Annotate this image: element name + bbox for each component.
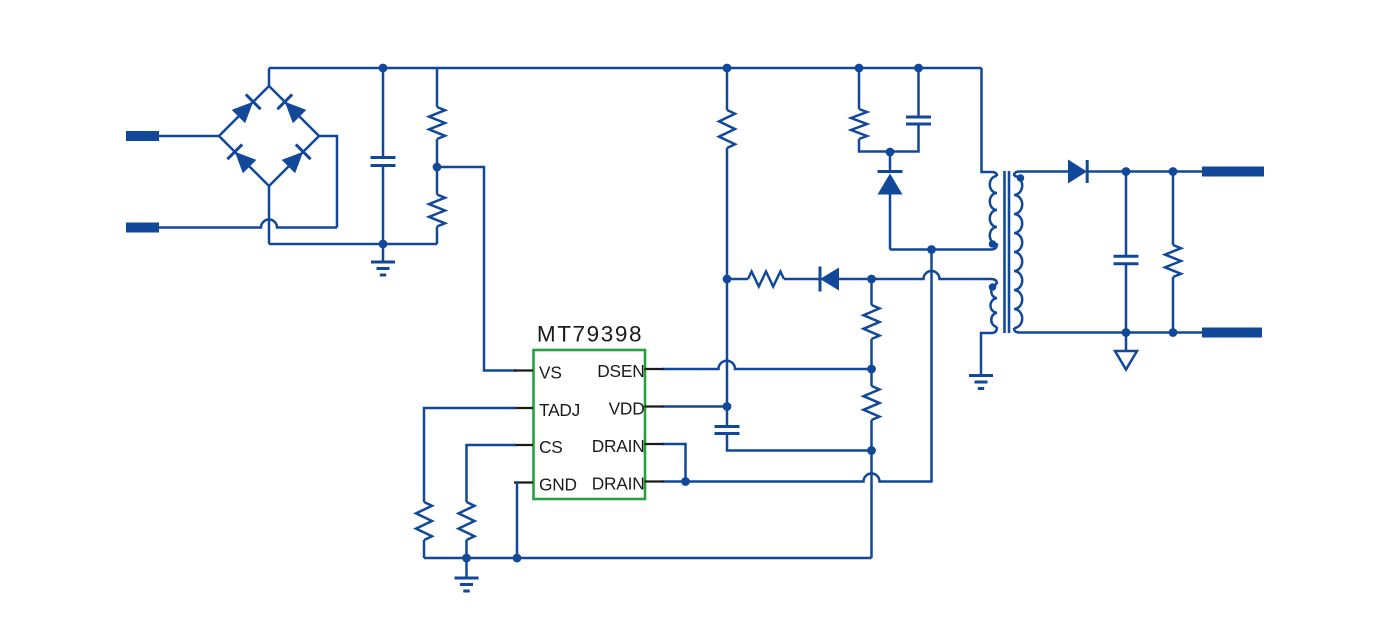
wire DRAIN pin 2 with hop over divider [662, 250, 932, 482]
resistor R1 (upper divider) [436, 68, 439, 107]
secondary phase dot [1017, 174, 1025, 182]
op IC U1 MT79398 box [534, 350, 646, 499]
wire bottom node [269, 243, 437, 246]
diode D5 (aux, pointing left) [820, 268, 839, 291]
output terminal + [1202, 167, 1264, 177]
diode D2 (bridge top-right) [285, 102, 307, 124]
diode D4 (bridge bottom-right) [282, 152, 304, 174]
wire GND pin [516, 483, 517, 559]
capacitor C4 (output) [1125, 172, 1128, 257]
node R3/aux line [723, 275, 732, 284]
aux phase dot [989, 283, 997, 291]
wire bridge right loop [319, 136, 337, 228]
wire aux bottom to ground [981, 327, 997, 374]
diode D3 (bridge bottom-left) [235, 152, 256, 174]
resistor R6 (sense divider lower) [864, 386, 880, 420]
ground (aux) [969, 374, 993, 377]
transformer T1 auxiliary winding [991, 284, 998, 327]
primary phase dot [989, 240, 997, 248]
svg-text:VS: VS [539, 363, 562, 383]
wire DRAIN pin 1 [662, 444, 686, 482]
pin stub VS [514, 369, 533, 371]
resistor R8 (load) [1172, 172, 1175, 246]
capacitor C1 (bulk) [382, 68, 385, 158]
capacitor C2 (VDD) [726, 407, 729, 426]
svg-text:DRAIN: DRAIN [592, 474, 645, 494]
resistor R7 (snubber) [858, 68, 861, 109]
wire secondary top [1014, 172, 1068, 177]
node load top [1169, 167, 1178, 176]
node GND/gnd [513, 554, 522, 563]
node DSEN [867, 365, 876, 374]
input terminal 1 [126, 131, 159, 141]
pin stub TADJ [514, 407, 533, 409]
svg-text:TADJ: TADJ [539, 400, 580, 420]
svg-text:DRAIN: DRAIN [592, 436, 645, 456]
pin stub DSEN (right) [645, 368, 664, 370]
ground (controller) [465, 558, 468, 577]
node output cap bottom [1122, 328, 1131, 337]
pin stub GND [514, 481, 533, 483]
wire bridge bottom drop [268, 186, 271, 244]
resistor R9 (TADJ) [416, 502, 432, 540]
wire top rail [269, 67, 982, 70]
transformer core [1003, 171, 1006, 333]
resistor R3 (startup, rail to VDD) [726, 68, 729, 110]
bridge rectifier diamond [219, 86, 319, 186]
wire D5 to divider with hop over drain line [839, 271, 997, 284]
resistor R5 (sense divider upper) [870, 279, 873, 305]
wire rail to primary top [982, 68, 998, 176]
wire VDD [662, 405, 727, 408]
node output cap top [1122, 167, 1131, 176]
resistor R2 (lower divider) [436, 139, 439, 195]
svg-text:VDD: VDD [609, 399, 645, 419]
svg-text:DSEN: DSEN [597, 361, 644, 381]
resistor R4 (aux series) [727, 278, 748, 281]
node drain join [681, 477, 690, 486]
pin stub DRAIN (right) [645, 443, 664, 445]
node rail/C1 [379, 64, 388, 73]
diode D6 (snubber clamp, pointing up) [889, 152, 892, 170]
pin stub CS [514, 444, 533, 446]
node primary bottom [927, 245, 936, 254]
wire primary bottom [890, 244, 997, 250]
wire input 1 to bridge left [159, 135, 219, 138]
wire input 2 with hop [159, 220, 337, 228]
node rail/R3 [723, 64, 732, 73]
pin stub VDD (right) [645, 405, 664, 407]
svg-text:CS: CS [539, 437, 563, 457]
diode D1 (bridge top-left) [232, 102, 254, 124]
capacitor C3 (snubber) [917, 68, 920, 117]
signal ground (output) [1125, 333, 1128, 352]
node divider bottom / C2 [867, 446, 876, 455]
output terminal - [1202, 328, 1262, 338]
pin stub DRAIN (right) [645, 480, 664, 482]
node load bottom [1169, 328, 1178, 337]
transformer T1 primary winding [990, 176, 997, 244]
node aux/divider top [867, 275, 876, 284]
wire divider node to VS [437, 167, 516, 371]
svg-text:GND: GND [539, 475, 577, 495]
wire TADJ [424, 408, 516, 502]
wire CS [467, 445, 517, 502]
svg-text:MT79398: MT79398 [537, 322, 643, 347]
diode D7 (output rectifier) [1068, 160, 1087, 184]
wire ground rail [424, 557, 872, 560]
node snubber [886, 148, 895, 157]
wire bridge top drop [268, 68, 271, 86]
node bottom/C1 [379, 240, 388, 249]
ground (primary bulk) [382, 244, 385, 261]
transformer T1 secondary winding [1014, 176, 1022, 328]
node divider [433, 163, 442, 172]
input terminal 2 [126, 223, 159, 233]
wire secondary bottom [1014, 328, 1202, 333]
node CS/gnd [462, 554, 471, 563]
resistor R10 (CS) [459, 502, 475, 540]
wire DSEN line with hop over R3 wire [662, 361, 872, 369]
